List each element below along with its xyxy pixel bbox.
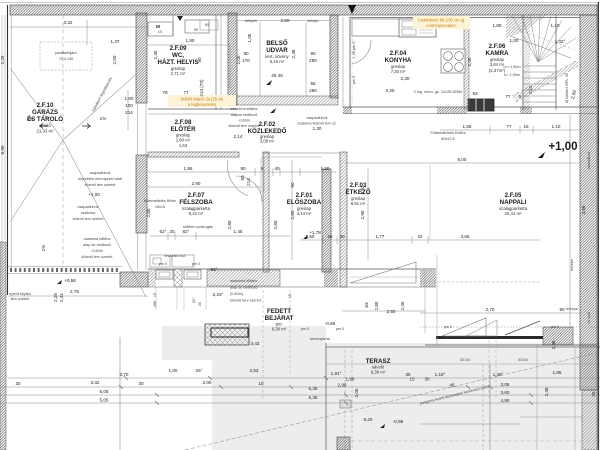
svg-text:kerécsjárna: kerécsjárna: [310, 337, 331, 341]
dim 2,23: [211, 267, 224, 297]
right edge rotated labels: [566, 151, 591, 323]
level mark +1,00 big: [538, 141, 578, 158]
left edge rotated dims: [0, 55, 5, 154]
felszoba cabinets: [150, 255, 194, 267]
svg-text:55: 55: [327, 234, 333, 239]
level +0,58: [57, 278, 76, 284]
svg-text:1%: 1%: [27, 116, 34, 121]
svg-text:2,80: 2,80: [290, 210, 295, 219]
garage right dims: [125, 96, 134, 115]
svg-text:2,53: 2,53: [250, 368, 259, 373]
svg-text:3,92: 3,92: [360, 185, 365, 194]
svg-text:2,25: 2,25: [53, 293, 58, 302]
dim verticals bottom dashed: [263, 290, 496, 400]
dim vertical courtyard: [237, 21, 330, 97]
svg-text:2,80: 2,80: [273, 220, 278, 229]
svg-text:77: 77: [505, 94, 511, 99]
stairs hatch patch below top band: [506, 15, 548, 38]
svg-text:53 54: 53 54: [518, 358, 528, 362]
left margin note: [9, 292, 31, 301]
svg-text:46: 46: [449, 383, 455, 388]
svg-text:4,90: 4,90: [501, 398, 510, 403]
svg-text:lefolyó: lefolyó: [308, 19, 319, 23]
svg-text:1,85: 1,85: [553, 370, 562, 375]
svg-text:3,06: 3,06: [501, 382, 510, 387]
svg-text:FEDETT: FEDETT: [267, 308, 291, 315]
dim vertical left of felszoba: [291, 160, 293, 260]
svg-text:1,00: 1,00: [169, 368, 178, 373]
garage east door reveals: [138, 103, 147, 270]
room label belso udvar: [265, 40, 289, 64]
svg-text:2,71 m²: 2,71 m²: [171, 71, 186, 76]
svg-text:vc szül: vc szül: [587, 312, 591, 324]
svg-text:2,14: 2,14: [234, 134, 243, 139]
svg-text:7,30 m²: 7,30 m²: [391, 69, 406, 74]
stairwell west wall: [523, 15, 530, 110]
svg-text:1,80: 1,80: [186, 38, 195, 43]
svg-text:55: 55: [310, 81, 316, 86]
orange note kitchen: [413, 16, 470, 29]
svg-text:csapadékvíz: csapadékvíz: [306, 116, 327, 120]
svg-text:2,00: 2,00: [203, 380, 212, 385]
svg-text:5,35: 5,35: [309, 395, 318, 400]
dim row garage top: [10, 20, 230, 88]
svg-text:62°: 62°: [211, 267, 218, 272]
svg-text:65: 65: [205, 23, 209, 27]
svg-text:2,50: 2,50: [281, 18, 290, 23]
svg-text:csatorna: csatorna: [81, 211, 96, 215]
garage note 1: [78, 171, 123, 197]
svg-text:5,05: 5,05: [100, 398, 109, 403]
svg-text:70 x 130: 70 x 130: [59, 57, 74, 61]
svg-text:levazaló cső: levazaló cső: [165, 254, 186, 258]
svg-text:2,48: 2,48: [291, 49, 296, 58]
svg-text:osakoma kőlánv: osakoma kőlánv: [230, 279, 258, 283]
svg-text:3,66: 3,66: [461, 234, 470, 239]
svg-text:terv szerint: terv szerint: [11, 297, 31, 301]
svg-text:-0,98: -0,98: [325, 321, 336, 326]
svg-text:82°: 82°: [183, 229, 190, 234]
svg-text:(0,60m): (0,60m): [230, 292, 244, 296]
right lower projection lines: [520, 345, 583, 450]
svg-text:2,00: 2,00: [236, 55, 241, 64]
svg-text:1%: 1%: [41, 245, 46, 252]
dim texts garage top: [64, 20, 120, 64]
svg-text:2,80: 2,80: [146, 208, 151, 217]
svg-text:90: 90: [240, 175, 245, 181]
kitchen counter: [352, 19, 400, 36]
svg-text:UDVAR: UDVAR: [266, 47, 288, 54]
room label fedett bejarat: [265, 308, 294, 332]
svg-text:2.F.05: 2.F.05: [505, 192, 522, 199]
garage note 2: [73, 205, 105, 221]
svg-text:3,43: 3,43: [251, 341, 260, 346]
bottom-left vertical line: [119, 337, 121, 450]
svg-text:ELŐSZOBA: ELŐSZOBA: [287, 199, 322, 206]
svg-text:90: 90: [559, 307, 565, 312]
svg-text:3,70: 3,70: [120, 372, 129, 377]
wall kitchen west line: [343, 17, 350, 108]
room label kozlekedo: [248, 121, 287, 144]
svg-text:100: 100: [125, 103, 133, 108]
svg-text:20: 20: [198, 302, 202, 306]
room label eloszoba: [287, 192, 322, 216]
bottom dim texts row2: [15, 368, 455, 388]
svg-text:1,77: 1,77: [376, 234, 385, 239]
svg-text:h=+1,90m: h=+1,90m: [503, 65, 520, 69]
svg-text:közmű terv szerint: közmű terv szerint: [73, 217, 105, 221]
svg-text:5,05: 5,05: [100, 389, 109, 394]
rotated dims wc: [153, 50, 204, 96]
dim row y187: [148, 186, 262, 188]
svg-text:alapos védőcső: alapos védőcső: [231, 113, 257, 117]
svg-text:20,41 m²: 20,41 m²: [505, 211, 523, 216]
svg-text:2.F.08: 2.F.08: [175, 119, 192, 126]
svg-text:1%: 1%: [100, 116, 107, 121]
felszoba bottom dims: [144, 199, 278, 229]
svg-text:+1,00: +1,00: [548, 141, 577, 153]
door swing triangle nappali left: [442, 318, 486, 336]
stair shaft rotated label: [565, 73, 569, 103]
wall right exterior lower: [582, 390, 597, 450]
svg-text:30: 30: [15, 381, 21, 386]
dim vertical etkezo: [367, 168, 369, 260]
room label konyha: [385, 50, 412, 81]
svg-text:20: 20: [169, 229, 175, 234]
svg-text:40: 40: [274, 166, 280, 171]
svg-text:1,20: 1,20: [321, 166, 330, 171]
svg-text:2,20: 2,20: [386, 88, 395, 93]
svg-text:kétlyés: kétlyés: [245, 19, 257, 23]
svg-text:pin 0: pin 0: [551, 325, 559, 329]
wall south of kitchen and kamra: [343, 107, 597, 114]
stair bottom steps block: [468, 99, 494, 111]
wc small labels: [156, 23, 209, 95]
svg-text:77: 77: [506, 124, 512, 129]
svg-text:214 (70): 214 (70): [199, 79, 204, 97]
wall WC south / entry north: [148, 109, 237, 114]
svg-text:1,00: 1,00: [125, 96, 134, 101]
svg-text:90: 90: [310, 51, 316, 56]
svg-text:2.F.07: 2.F.07: [188, 192, 205, 199]
dim column left edge: [0, 3, 597, 301]
porch row texts: [160, 225, 243, 234]
svg-text:9,91 m²: 9,91 m²: [351, 201, 366, 206]
svg-text:4,14 m²: 4,14 m²: [297, 211, 312, 216]
gray paving area around entrance and terrace: [162, 326, 600, 450]
levazalo cso: [159, 254, 200, 266]
garage note 3: [82, 237, 114, 259]
svg-text:pm 0: pm 0: [336, 327, 344, 331]
svg-text:40: 40: [339, 234, 345, 239]
svg-text:90: 90: [290, 182, 295, 188]
wall garage east lower: [136, 155, 147, 233]
svg-text:alap se védőcső: alap se védőcső: [230, 286, 257, 290]
kitchen dim notes: [352, 42, 472, 94]
south wall rotated dims: [153, 293, 292, 307]
room label eloter: [170, 119, 196, 148]
svg-text:15: 15: [153, 293, 157, 297]
room label kamra: [485, 43, 520, 73]
svg-text:2,05: 2,05: [354, 388, 359, 397]
svg-text:lépcsőház: lépcsőház: [587, 151, 591, 168]
svg-text:9,20: 9,20: [364, 417, 373, 422]
svg-text:2,50: 2,50: [112, 55, 117, 64]
svg-text:HÁZT. HELYIS: HÁZT. HELYIS: [157, 59, 198, 66]
wall eloszoba east: [322, 169, 331, 272]
svg-text:90: 90: [194, 28, 198, 32]
svg-text:15: 15: [523, 124, 529, 129]
kerites note: [310, 337, 331, 341]
dim strip above terrace: [342, 301, 425, 314]
wall etkezo west: [340, 152, 347, 287]
level +1,78: [303, 230, 321, 239]
door arc felszoba: [236, 176, 262, 202]
wall felszoba east: [263, 152, 269, 272]
wall top exterior band: [10, 5, 597, 15]
stair dims: [510, 38, 578, 100]
svg-text:2,48: 2,48: [551, 340, 556, 349]
svg-text:FÉLSZOBA: FÉLSZOBA: [179, 198, 213, 206]
door arc kitchen: [352, 40, 371, 64]
WC closet M: [148, 15, 173, 36]
svg-text:1,00: 1,00: [510, 38, 519, 43]
svg-text:BELSŐ: BELSŐ: [266, 40, 288, 47]
garage south rotated dims: [53, 289, 79, 302]
wall courtyard south: [228, 96, 338, 105]
svg-text:45: 45: [591, 391, 596, 397]
wall WC east / courtyard west: [228, 13, 237, 105]
terrace outline: [326, 343, 600, 450]
svg-text:280: 280: [309, 88, 317, 93]
room label nappali: [499, 192, 528, 216]
wall house south left section: [148, 269, 436, 287]
svg-text:Csatlakozó 90-130 cm-ig: Csatlakozó 90-130 cm-ig: [418, 18, 465, 23]
svg-text:80: 80: [240, 166, 246, 171]
svg-text:GARÁZS: GARÁZS: [32, 109, 58, 116]
svg-text:1,37: 1,37: [111, 39, 120, 44]
stairs straight steps: [523, 15, 556, 110]
svg-text:1,10: 1,10: [551, 23, 560, 28]
svg-text:1,05: 1,05: [247, 33, 252, 42]
svg-text:2,40: 2,40: [467, 57, 472, 66]
csapadekviz note kozlekedo: [297, 116, 337, 126]
svg-text:KAMRA: KAMRA: [485, 50, 509, 57]
svg-text:csapadékvíz: csapadékvíz: [89, 171, 110, 175]
svg-text:2,80: 2,80: [374, 301, 379, 310]
svg-text:5,35: 5,35: [309, 386, 318, 391]
rotated roof text: [91, 77, 113, 113]
svg-text:1,10: 1,10: [552, 124, 561, 129]
room label etkezo: [345, 182, 370, 206]
svg-text:2,48: 2,48: [544, 387, 549, 396]
svg-text:15: 15: [288, 294, 292, 298]
svg-text:2,31: 2,31: [59, 293, 64, 302]
terrace east edge line: [536, 345, 538, 450]
dim line garage drive y296: [8, 295, 148, 297]
dim row y172 corridor: [148, 168, 336, 176]
svg-text:1,96: 1,96: [346, 377, 355, 382]
svg-text:2,75: 2,75: [70, 289, 79, 294]
svg-text:280: 280: [153, 301, 157, 307]
svg-text:90: 90: [197, 57, 202, 63]
attic hatch label: [55, 51, 77, 61]
svg-text:22: 22: [417, 234, 423, 239]
svg-text:8,42 m²: 8,42 m²: [189, 211, 204, 216]
svg-text:1,58: 1,58: [463, 124, 472, 129]
svg-text:2.F.04: 2.F.04: [390, 50, 407, 57]
kamra dims: [472, 23, 559, 99]
wc door wedge: [177, 16, 183, 21]
svg-text:+1,00: +1,00: [88, 192, 100, 197]
svg-text:2,90: 2,90: [338, 383, 347, 388]
svg-text:53: 53: [472, 91, 478, 96]
svg-text:2.F.06: 2.F.06: [489, 43, 506, 50]
room label terasz: [366, 358, 391, 375]
svg-text:214: 214: [246, 178, 251, 186]
svg-text:10: 10: [158, 30, 162, 34]
svg-text:kötélen szútrugás: kötélen szútrugás: [183, 225, 213, 229]
stairs cut line dashed pair: [512, 60, 578, 102]
corridor dim texts: [184, 166, 330, 171]
wall corridor south: [148, 152, 340, 192]
svg-text:1,63: 1,63: [179, 143, 188, 148]
svg-text:2 nlg. norm. gk. 2x12B DN50: 2 nlg. norm. gk. 2x12B DN50: [414, 90, 463, 94]
svg-text:2,90: 2,90: [360, 210, 365, 219]
svg-text:WC,: WC,: [172, 52, 184, 59]
svg-text:30: 30: [138, 381, 144, 386]
garage roof diagonal lines: [10, 15, 146, 297]
svg-text:osatorna kőfánv: osatorna kőfánv: [83, 237, 110, 241]
WC east shaft lines: [216, 15, 221, 110]
svg-text:6,38 m²: 6,38 m²: [371, 370, 386, 375]
svg-text:2.F.01: 2.F.01: [296, 192, 313, 199]
door swing triangle etkezo-terasz: [350, 262, 420, 283]
svg-text:2.F.02: 2.F.02: [259, 121, 276, 128]
svg-text:8,90: 8,90: [0, 145, 5, 154]
svg-text:6,30 m²: 6,30 m²: [272, 327, 287, 332]
svg-text:2,80: 2,80: [227, 220, 232, 229]
svg-text:a középvonalon: a középvonalon: [426, 23, 456, 28]
wall garage east upper: [136, 13, 147, 103]
svg-text:pin 0: pin 0: [444, 325, 452, 329]
svg-text:2,70: 2,70: [486, 307, 495, 312]
terrace corner post: [337, 400, 351, 450]
wall left edge strip: [0, 242, 6, 450]
svg-text:170: 170: [242, 58, 250, 63]
svg-text:KONYHA: KONYHA: [385, 57, 412, 64]
dim row mid house y130: [440, 126, 580, 134]
courtyard south wall note: [229, 107, 276, 128]
svg-text:2,50: 2,50: [387, 309, 396, 314]
svg-text:60x12.5: 60x12.5: [441, 137, 455, 141]
svg-text:5: 5: [261, 166, 264, 171]
dim row y240 right: [300, 236, 540, 244]
svg-text:-0,98: -0,98: [393, 419, 404, 424]
svg-text:3,66: 3,66: [581, 205, 586, 214]
svg-text:214: 214: [125, 110, 133, 115]
svg-text:90: 90: [243, 51, 249, 56]
terrace rotated note: [420, 384, 491, 405]
svg-text:21,33 m²: 21,33 m²: [37, 129, 55, 134]
right row y240 texts: [306, 234, 470, 239]
right edge dark border line: [597, 2, 599, 450]
svg-text:pm 0: pm 0: [301, 327, 309, 331]
wall note over south wall: [230, 279, 262, 303]
svg-text:10: 10: [258, 381, 264, 386]
svg-text:5,15 m²: 5,15 m²: [270, 59, 285, 64]
door arc kozlekedo to eloszoba: [228, 160, 248, 196]
svg-text:a légbevezetés: a légbevezetés: [188, 102, 216, 107]
wall garage southeast corner block: [120, 272, 148, 287]
svg-text:8,00: 8,00: [458, 157, 467, 162]
svg-text:30: 30: [424, 377, 430, 382]
wall kamra west: [464, 17, 469, 109]
kitchen sink unit: [399, 19, 436, 37]
svg-text:pm 0: pm 0: [159, 262, 167, 266]
lefolyo note: [308, 19, 319, 23]
svg-text:63: 63: [364, 302, 369, 308]
svg-text:elvezetés mennyezet alatt: elvezetés mennyezet alatt: [78, 177, 123, 181]
svg-text:2,90: 2,90: [192, 181, 201, 186]
svg-text:főzemeltetés fölhie: főzemeltetés fölhie: [144, 199, 176, 203]
misc projection lines: [345, 15, 600, 441]
svg-text:53 54: 53 54: [460, 358, 470, 362]
projection line etkezo east: [425, 255, 437, 345]
courtyard top note: [245, 18, 290, 23]
svg-text:pm 0: pm 0: [192, 262, 200, 266]
WC shower: [185, 20, 218, 33]
svg-text:közmű terv szerint: közmű terv szerint: [230, 299, 262, 303]
svg-text:214: 214: [528, 86, 533, 94]
room label felszoba: [179, 192, 213, 216]
bottom dim texts row1: [120, 341, 562, 377]
svg-text:25°: 25°: [196, 368, 203, 373]
svg-text:pm 0: pm 0: [352, 76, 356, 84]
window projection lines: [156, 287, 206, 310]
svg-text:-0,60m: -0,60m: [91, 249, 103, 253]
svg-text:ÉTKEZŐ: ÉTKEZŐ: [345, 188, 370, 196]
svg-text:3,08 m²: 3,08 m²: [260, 139, 275, 144]
svg-text:1,30: 1,30: [313, 126, 322, 131]
orange note wc: [168, 95, 236, 107]
kitchen cooktop: [441, 49, 465, 73]
svg-text:3,32: 3,32: [64, 20, 73, 25]
dim vertical right side x570: [569, 115, 571, 330]
wall garage west line: [8, 5, 12, 295]
dim row porch y236: [150, 232, 290, 240]
svg-text:40 46: 40 46: [271, 73, 283, 78]
dim 8,00: [458, 157, 467, 162]
svg-text:M: M: [156, 24, 160, 29]
bottom level marks: [364, 417, 404, 428]
room label wc: [157, 45, 198, 76]
svg-text:1,45: 1,45: [234, 229, 243, 234]
svg-text:2,23°: 2,23°: [213, 292, 224, 297]
garage door grating: [8, 267, 122, 274]
svg-text:1,80: 1,80: [493, 23, 502, 28]
svg-text:77: 77: [183, 90, 189, 95]
stairs winder fan top right: [510, 15, 576, 62]
svg-text:padlásfeljáró: padlásfeljáró: [55, 51, 77, 55]
svg-text:-0,60m: -0,60m: [238, 119, 250, 123]
svg-text:62°: 62°: [160, 229, 167, 234]
dim row y130 texts: [463, 124, 561, 129]
rotated dims near kozlekedo door: [234, 126, 322, 186]
fodem note: [430, 131, 465, 141]
svg-text:2.F.10: 2.F.10: [37, 102, 54, 109]
dim vertical garage right labels line: [127, 90, 129, 130]
